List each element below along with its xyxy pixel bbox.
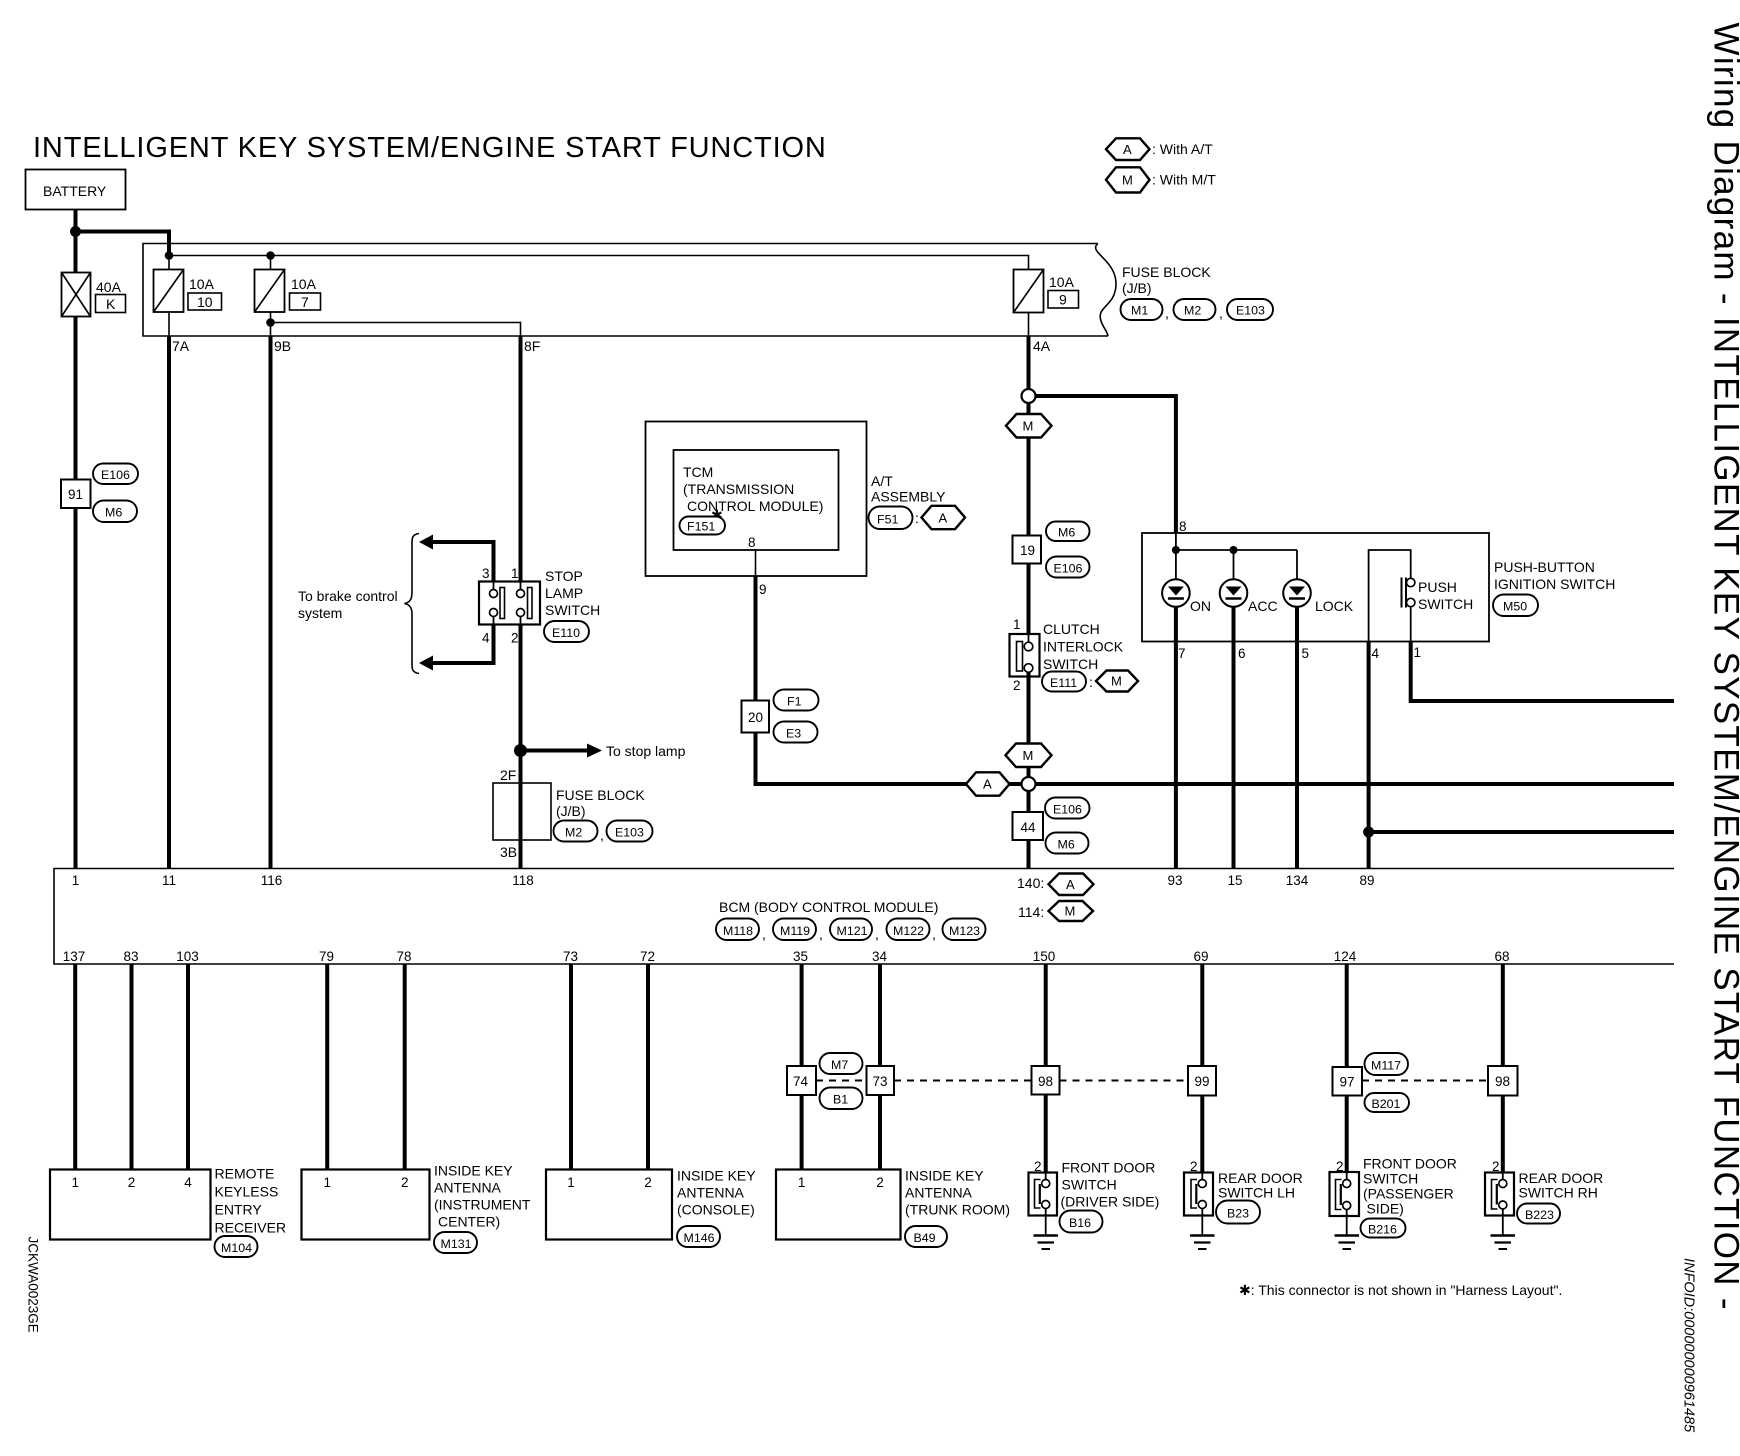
svg-text:E106: E106 <box>1054 562 1083 576</box>
fusible link K 40A <box>62 273 126 317</box>
connector M7 <box>820 1053 863 1074</box>
wire connector 20 to hexagon A <box>756 733 967 785</box>
wire 8F to stop lamp switch pin 1 <box>519 336 523 582</box>
wire node to push-button ignition switch pin 8 <box>1036 396 1176 533</box>
svg-text:M50: M50 <box>1503 600 1527 614</box>
inside key antenna trunk room label <box>905 1168 1010 1218</box>
svg-text:ANTENNA: ANTENNA <box>434 1180 502 1196</box>
BCM pin 72 <box>640 949 655 964</box>
wire BCM 78 to antenna pin 2 <box>403 964 407 1170</box>
svg-text:98: 98 <box>1495 1074 1510 1089</box>
fuse block (J/B) label 2 <box>556 787 645 819</box>
connector M6 <box>93 501 137 523</box>
wire fuse7 to 9B and 8F branch <box>271 312 521 336</box>
wire battery junction to fuse block <box>76 232 170 256</box>
connector 98 right <box>1488 1066 1518 1096</box>
svg-text:10A: 10A <box>1049 274 1075 290</box>
svg-text:SWITCH: SWITCH <box>1418 596 1473 612</box>
svg-text:B23: B23 <box>1227 1207 1249 1221</box>
svg-text:E110: E110 <box>552 626 580 640</box>
svg-text:89: 89 <box>1359 873 1374 888</box>
fuse block label <box>1122 264 1211 296</box>
diode ON indicator <box>1162 579 1211 614</box>
svg-text:,: , <box>932 926 936 942</box>
svg-text:2F: 2F <box>500 767 516 783</box>
svg-text:SWITCH: SWITCH <box>545 602 600 618</box>
connector B49 <box>905 1226 947 1247</box>
svg-text:E103: E103 <box>615 826 644 840</box>
connector E3 <box>774 722 818 743</box>
hexagon tag M (BCM 114 wire) <box>1006 744 1052 768</box>
legend hexagon A <box>1106 138 1213 160</box>
svg-text:Wiring Diagram - INTELLIGENT K: Wiring Diagram - INTELLIGENT KEY SYSTEM/… <box>1707 23 1740 1311</box>
pin 2 front door switch driver <box>1034 1159 1042 1174</box>
svg-text:68: 68 <box>1494 949 1509 964</box>
wire clutch interlock switch to hexagon M <box>1027 672 1031 744</box>
svg-text:: With M/T: : With M/T <box>1152 172 1216 188</box>
pin 4 push-button ignition switch <box>1372 646 1380 661</box>
svg-text:INSIDE KEY: INSIDE KEY <box>434 1163 513 1179</box>
wire stop lamp pin 3 to brake control <box>419 535 494 582</box>
stop lamp switch label <box>545 568 600 618</box>
BCM pin 137 <box>63 949 86 964</box>
star footnote mark TCM <box>711 507 723 523</box>
svg-text:SWITCH: SWITCH <box>1043 656 1098 672</box>
connector E103 (J/B) <box>600 821 653 844</box>
inside key antenna console label <box>677 1168 756 1218</box>
svg-text:F1: F1 <box>787 695 802 709</box>
svg-text:15: 15 <box>1227 873 1242 888</box>
svg-text:19: 19 <box>1020 543 1035 558</box>
BCM pin 83 <box>123 949 138 964</box>
hexagon tag M (4A wire) <box>1006 414 1052 438</box>
svg-text:44: 44 <box>1021 820 1037 835</box>
svg-text:8F: 8F <box>524 338 540 354</box>
svg-text:ENTRY: ENTRY <box>215 1202 263 1218</box>
pin 2 receiver <box>128 1175 136 1190</box>
svg-text:7: 7 <box>1178 646 1186 661</box>
BCM pin 134 <box>1286 873 1309 888</box>
svg-text:9: 9 <box>759 582 767 597</box>
svg-text:FRONT DOOR: FRONT DOOR <box>1062 1160 1156 1176</box>
svg-text:4: 4 <box>482 631 490 646</box>
pin 4 receiver <box>184 1175 192 1190</box>
BCM pin 116 <box>261 873 283 888</box>
svg-text:M6: M6 <box>1058 526 1075 540</box>
svg-text:137: 137 <box>63 949 86 964</box>
wire BCM 69 to rear door switch LH <box>1200 964 1204 1180</box>
BCM pin 114 hexagon M <box>1018 901 1093 921</box>
svg-text:B49: B49 <box>914 1231 936 1245</box>
svg-text:A: A <box>983 777 992 792</box>
svg-text:B1: B1 <box>833 1093 848 1107</box>
svg-text:,: , <box>762 926 766 942</box>
node 4A branch <box>1022 389 1036 403</box>
terminal 9B <box>274 338 291 354</box>
svg-text:M1: M1 <box>1131 304 1148 318</box>
svg-text:7A: 7A <box>172 338 190 354</box>
svg-text:1: 1 <box>798 1175 806 1190</box>
inside key antenna console <box>546 1170 672 1240</box>
connector 97 <box>1333 1067 1363 1096</box>
pin 9 A/T assembly <box>759 582 767 597</box>
BCM pin 35 <box>793 949 808 964</box>
svg-text:(DRIVER SIDE): (DRIVER SIDE) <box>1061 1194 1160 1210</box>
svg-text:1: 1 <box>323 1175 331 1190</box>
svg-text:116: 116 <box>261 873 283 888</box>
fuse block internal bus wire <box>169 256 1029 270</box>
pin 1 clutch interlock switch <box>1013 617 1021 632</box>
wire 40A fuse to BCM pin 1 <box>74 317 78 869</box>
wire pin 7 to BCM pin 93 <box>1174 642 1178 869</box>
wire BCM 72 to console antenna pin 2 <box>646 964 650 1170</box>
svg-text:1: 1 <box>72 873 80 888</box>
connector M2 <box>1165 299 1216 321</box>
connector M146 <box>677 1226 720 1247</box>
connector M118 <box>716 919 759 941</box>
pin 1 receiver <box>71 1175 79 1190</box>
svg-text:REMOTE: REMOTE <box>215 1166 275 1182</box>
svg-text:CONTROL MODULE): CONTROL MODULE) <box>687 498 823 514</box>
svg-text:K: K <box>106 296 116 312</box>
connector 73 <box>867 1066 895 1095</box>
svg-text:FRONT DOOR: FRONT DOOR <box>1363 1156 1457 1172</box>
pin 1 push-button ignition switch <box>1414 645 1422 660</box>
BCM pin 1 <box>72 873 80 888</box>
wire BCM 73 to console antenna pin 1 <box>569 964 573 1170</box>
svg-text:M122: M122 <box>893 924 924 938</box>
svg-text:M121: M121 <box>837 924 868 938</box>
BCM pin 34 <box>872 949 888 964</box>
svg-text:system: system <box>298 605 342 621</box>
svg-text:(J/B): (J/B) <box>1122 280 1152 296</box>
svg-text:10A: 10A <box>291 276 317 292</box>
connector E106 (19) <box>1046 557 1090 578</box>
svg-text:KEYLESS: KEYLESS <box>215 1184 279 1200</box>
svg-text::: : <box>1089 674 1093 690</box>
svg-text:STOP: STOP <box>545 568 583 584</box>
svg-text:M6: M6 <box>1058 838 1075 852</box>
svg-text:35: 35 <box>793 949 808 964</box>
label to brake control system <box>298 588 398 621</box>
svg-text:ANTENNA: ANTENNA <box>905 1185 973 1201</box>
svg-text:✱: This connector is not shown: ✱: This connector is not shown in "Harne… <box>1239 1282 1562 1298</box>
svg-text:INSIDE KEY: INSIDE KEY <box>677 1168 756 1184</box>
svg-text:91: 91 <box>68 487 83 502</box>
svg-text:(INSTRUMENT: (INSTRUMENT <box>434 1197 531 1213</box>
battery B1 <box>26 170 126 210</box>
rear door switch LH label <box>1218 1170 1303 1201</box>
node fuse10 bus junction <box>165 251 174 260</box>
svg-text:SWITCH RH: SWITCH RH <box>1519 1185 1598 1201</box>
connector M121 <box>819 919 872 943</box>
pin 2 clutch interlock switch <box>1013 678 1021 693</box>
svg-text:1: 1 <box>71 1175 79 1190</box>
svg-text:114:: 114: <box>1018 904 1044 920</box>
BCM pin 79 <box>319 949 334 964</box>
wire stop lamp pin 2 to 2F <box>519 625 523 784</box>
node pin 4 branch <box>1363 827 1374 838</box>
front door switch driver label <box>1061 1160 1160 1210</box>
node fuse7 bus junction <box>266 251 275 260</box>
wire fuse10 to 7A <box>168 312 170 336</box>
svg-text:SWITCH: SWITCH <box>1062 1177 1117 1193</box>
connector F51 <box>869 507 919 530</box>
connector E111 <box>1042 672 1093 692</box>
connector M6 (44) <box>1046 833 1089 854</box>
BCM pin 118 <box>512 873 534 888</box>
terminal 2F <box>500 767 516 783</box>
svg-text:B16: B16 <box>1069 1216 1091 1230</box>
svg-text:118: 118 <box>512 873 534 888</box>
wire fuse9 to 4A <box>1028 313 1030 337</box>
svg-text:To brake control: To brake control <box>298 588 398 604</box>
wire BCM 124 to front door switch passenger <box>1345 964 1349 1180</box>
INFOID code <box>1681 1258 1697 1433</box>
svg-text:2: 2 <box>401 1175 409 1190</box>
connector M117 <box>1365 1053 1409 1075</box>
pin 1 stop lamp switch <box>511 566 519 581</box>
push-button ignition switch box <box>1142 533 1489 642</box>
BCM pin 89 <box>1359 873 1374 888</box>
node A/M merge <box>1022 777 1036 791</box>
svg-text:ON: ON <box>1190 598 1211 614</box>
svg-text:,: , <box>1219 305 1223 321</box>
svg-text:M119: M119 <box>780 924 810 938</box>
svg-text:11: 11 <box>162 873 176 888</box>
svg-text:BATTERY: BATTERY <box>43 183 107 199</box>
svg-text:2: 2 <box>876 1175 884 1190</box>
push-button ignition switch label <box>1494 559 1615 592</box>
BCM pin 68 <box>1494 949 1509 964</box>
wire node to hexagon M <box>1027 403 1031 415</box>
connector M119 <box>762 919 816 943</box>
push switch label <box>1418 579 1473 612</box>
svg-text:34: 34 <box>872 949 888 964</box>
svg-text:2: 2 <box>128 1175 136 1190</box>
fuse 7 10A <box>255 256 321 313</box>
side heading Wiring Diagram <box>1707 23 1740 1311</box>
connector B16 <box>1060 1211 1103 1233</box>
pin 2 antenna trunk <box>876 1175 884 1190</box>
svg-text:83: 83 <box>123 949 138 964</box>
pin 1 antenna trunk <box>798 1175 806 1190</box>
svg-text:To stop lamp: To stop lamp <box>606 743 686 759</box>
connector B201 <box>1365 1093 1410 1112</box>
rear door switch RH label <box>1519 1170 1604 1201</box>
wire TCM pin 8 inside A/T assembly <box>755 550 757 576</box>
svg-text:124: 124 <box>1334 949 1357 964</box>
svg-text:SWITCH: SWITCH <box>1363 1171 1418 1187</box>
wire hexagon M to node <box>1027 767 1031 777</box>
svg-text:INTERLOCK: INTERLOCK <box>1043 639 1124 655</box>
BCM pin 78 <box>396 949 411 964</box>
svg-text:9B: 9B <box>274 338 291 354</box>
wire to stop lamp arrow <box>521 743 686 759</box>
connector B216 <box>1361 1219 1406 1238</box>
svg-text:E106: E106 <box>1053 803 1082 817</box>
svg-text:E111: E111 <box>1050 676 1077 690</box>
svg-text:1: 1 <box>511 566 519 581</box>
wire BCM 137 to receiver pin 1 <box>73 964 77 1170</box>
svg-text:99: 99 <box>1195 1074 1210 1089</box>
wire battery to fuse 40A <box>74 210 78 273</box>
wire BCM 150 to front door switch driver <box>1044 964 1048 1180</box>
connector F1 <box>774 690 819 711</box>
svg-text:1: 1 <box>1013 617 1021 632</box>
connector 44 <box>1013 812 1044 840</box>
svg-text:78: 78 <box>396 949 411 964</box>
svg-text:1: 1 <box>1414 645 1422 660</box>
svg-text:M104: M104 <box>221 1241 252 1255</box>
pin 1 antenna console <box>567 1175 575 1190</box>
svg-text:69: 69 <box>1193 949 1208 964</box>
node to stop lamp junction <box>514 744 527 757</box>
connector M123 <box>932 919 986 943</box>
svg-text:(TRUNK ROOM): (TRUNK ROOM) <box>905 1202 1010 1218</box>
svg-text:74: 74 <box>793 1074 809 1089</box>
terminal 3B <box>500 844 517 860</box>
connector M2 (J/B) <box>554 821 598 842</box>
svg-text::: : <box>915 510 919 526</box>
svg-text:M7: M7 <box>831 1058 848 1072</box>
A/T assembly label <box>871 473 946 505</box>
BCM (body control module) <box>54 869 1674 965</box>
connector B23 <box>1216 1201 1260 1224</box>
wire pin 5 to BCM pin 134 <box>1295 642 1299 869</box>
svg-text:8: 8 <box>1179 519 1187 534</box>
svg-text:97: 97 <box>1340 1075 1355 1090</box>
svg-text:CLUTCH: CLUTCH <box>1043 621 1100 637</box>
wire connector 19 to clutch interlock switch <box>1027 564 1031 643</box>
svg-text:A/T: A/T <box>871 473 893 489</box>
front door switch (driver side) <box>1029 1173 1058 1216</box>
pin 2 antenna instrument <box>401 1175 409 1190</box>
connector M50 <box>1493 595 1538 617</box>
fuse block (J/B) outline <box>143 244 1116 337</box>
svg-text:,: , <box>1165 305 1169 321</box>
svg-text:9: 9 <box>1059 292 1067 308</box>
ground rear door switch LH <box>1190 1209 1215 1250</box>
pin 6 push-button ignition switch <box>1238 646 1246 661</box>
pin 4 stop lamp switch <box>482 631 490 646</box>
svg-text:: With A/T: : With A/T <box>1152 141 1213 157</box>
wire pin 6 to BCM pin 15 <box>1232 642 1236 869</box>
pin 8 TCM <box>748 535 756 550</box>
twisted pair dashes <box>816 1080 1488 1082</box>
svg-text:150: 150 <box>1033 949 1056 964</box>
svg-text:10: 10 <box>197 294 213 310</box>
svg-text:3: 3 <box>482 566 490 581</box>
hexagon tag A (F51) <box>922 506 966 529</box>
connector M104 <box>215 1236 258 1257</box>
pin 2 rear door switch LH <box>1190 1159 1198 1174</box>
connector E106 <box>93 464 138 485</box>
svg-text:FUSE BLOCK: FUSE BLOCK <box>556 787 645 803</box>
svg-text:79: 79 <box>319 949 334 964</box>
node 8F branch junction <box>266 318 275 327</box>
pin 5 push-button ignition switch <box>1302 646 1310 661</box>
wire connector 44 to BCM pin 140/114 <box>1027 840 1031 869</box>
rear door switch LH <box>1184 1173 1213 1216</box>
front door switch passenger label <box>1363 1156 1457 1217</box>
svg-text:B216: B216 <box>1368 1223 1397 1237</box>
svg-text:2: 2 <box>511 631 519 646</box>
svg-text:M: M <box>1023 419 1034 434</box>
BCM pin 11 <box>162 873 176 888</box>
wire node to right edge <box>1036 782 1675 786</box>
hexagon tag M (E111) <box>1096 671 1138 692</box>
connector E106 (44) <box>1045 798 1090 819</box>
push switch contacts <box>1402 578 1415 642</box>
ground front door switch driver <box>1034 1209 1059 1250</box>
svg-text:INTELLIGENT KEY SYSTEM/ENGINE: INTELLIGENT KEY SYSTEM/ENGINE START FUNC… <box>33 132 827 164</box>
connector B223 <box>1517 1204 1560 1224</box>
svg-text:73: 73 <box>563 949 578 964</box>
svg-text:M: M <box>1111 674 1122 689</box>
wire stop lamp pin 4 to brake control <box>419 625 494 671</box>
svg-text:ANTENNA: ANTENNA <box>677 1185 745 1201</box>
svg-text:M2: M2 <box>1184 304 1201 318</box>
svg-text:93: 93 <box>1167 873 1182 888</box>
svg-text:B223: B223 <box>1525 1208 1554 1222</box>
svg-text:RECEIVER: RECEIVER <box>215 1220 287 1236</box>
svg-text:7: 7 <box>301 294 309 310</box>
diode LOCK indicator <box>1283 579 1354 614</box>
figure code JCKWA0023GE <box>26 1237 41 1333</box>
junction battery feed <box>70 226 81 237</box>
inside key antenna instrument center label <box>434 1163 531 1230</box>
svg-text:JCKWA0023GE: JCKWA0023GE <box>26 1237 41 1333</box>
BCM pin 140 hexagon A <box>1017 874 1094 896</box>
svg-text:A: A <box>1123 142 1132 157</box>
wires diodes to box bottom <box>1176 607 1297 642</box>
fuse 10 10A <box>154 256 222 313</box>
wire pin 4 to push switch <box>1369 550 1411 642</box>
ground rear door switch RH <box>1491 1209 1516 1249</box>
svg-text:BCM (BODY CONTROL MODULE): BCM (BODY CONTROL MODULE) <box>719 899 938 915</box>
svg-text:20: 20 <box>748 710 763 725</box>
BCM pin 124 <box>1334 949 1357 964</box>
svg-text:4A: 4A <box>1033 338 1051 354</box>
wire A/T assembly pin 9 to connector 20 <box>754 576 758 701</box>
BCM pin 73 <box>563 949 578 964</box>
BCM label <box>719 899 938 915</box>
svg-text:PUSH: PUSH <box>1418 579 1457 595</box>
svg-text:M6: M6 <box>105 506 122 520</box>
node bus ON <box>1172 546 1180 554</box>
svg-text:LOCK: LOCK <box>1315 598 1354 614</box>
svg-text:40A: 40A <box>96 279 122 295</box>
connector 91 <box>61 480 91 509</box>
svg-text:(J/B): (J/B) <box>556 803 586 819</box>
pin 2 front door switch passenger <box>1336 1159 1344 1174</box>
svg-text:ASSEMBLY: ASSEMBLY <box>871 489 946 505</box>
wire BCM 34 to trunk antenna pin 2 <box>878 964 882 1170</box>
svg-text:TCM: TCM <box>683 464 713 480</box>
connector E110 <box>544 621 589 642</box>
pin 2 stop lamp switch <box>511 631 519 646</box>
wire BCM 83 to receiver pin 2 <box>130 964 134 1170</box>
svg-text:M131: M131 <box>441 1237 472 1251</box>
BCM pin 15 <box>1227 873 1242 888</box>
svg-text:A: A <box>939 511 948 526</box>
BCM pin 150 <box>1033 949 1056 964</box>
diode ACC indicator <box>1220 579 1278 614</box>
wire BCM 103 to receiver pin 4 <box>186 964 190 1170</box>
wire 7A to BCM pin 11 <box>167 336 171 869</box>
connector M1 <box>1121 299 1163 320</box>
